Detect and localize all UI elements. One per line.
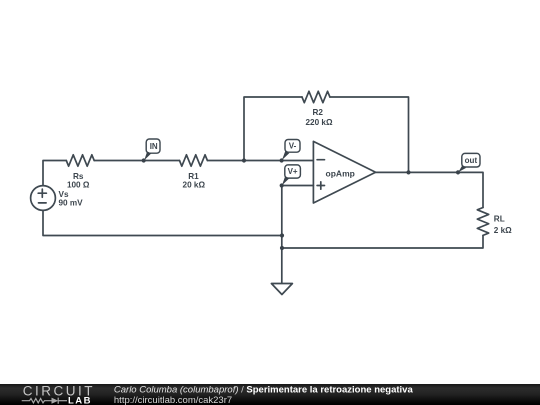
svg-text:20 kΩ: 20 kΩ [183,180,206,189]
svg-text:RL: RL [494,215,505,224]
svg-text:out: out [465,156,478,165]
svg-text:http://circuitlab.com/cak23r7: http://circuitlab.com/cak23r7 [114,395,232,405]
svg-text:100 Ω: 100 Ω [67,180,90,189]
svg-text:90 mV: 90 mV [59,199,84,208]
svg-text:R2: R2 [312,108,323,117]
svg-text:opAmp: opAmp [326,168,355,178]
svg-text:220 kΩ: 220 kΩ [305,118,332,127]
svg-text:IN: IN [150,142,158,151]
svg-text:Carlo Columba (columbaprof) /: Carlo Columba (columbaprof) / Sperimenta… [114,384,414,395]
svg-text:2 kΩ: 2 kΩ [494,226,512,235]
svg-text:LAB: LAB [68,395,92,405]
svg-text:V+: V+ [288,167,298,176]
svg-text:V-: V- [289,142,297,151]
